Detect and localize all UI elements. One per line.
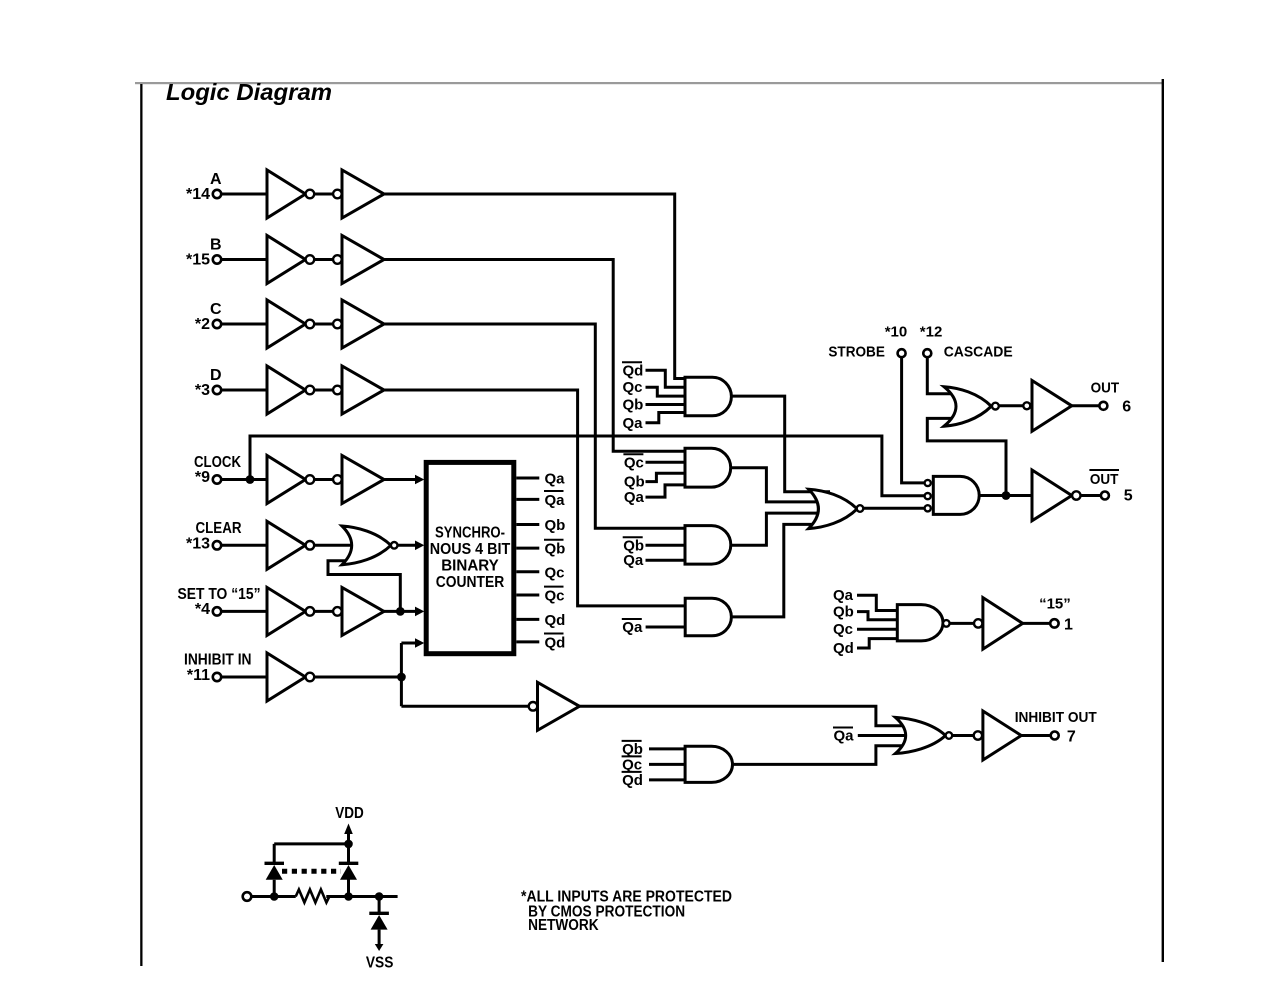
OR gate G10 inhibit out xyxy=(895,717,952,753)
buffer C second stage xyxy=(333,300,384,348)
counter output stub Qa-bar xyxy=(516,491,565,509)
svg-text:A: A xyxy=(210,171,222,188)
dotted link between D1 and D2 xyxy=(282,869,341,874)
wire G1 output to NOR G6 input 1 xyxy=(731,396,830,492)
note ALL INPUTS ARE PROTECTED xyxy=(521,888,732,934)
inverter A first stage xyxy=(267,170,314,218)
AND gate G4 xyxy=(685,598,731,636)
G2 stub Qa xyxy=(624,485,690,506)
svg-text:Qb: Qb xyxy=(622,741,643,758)
svg-text:B: B xyxy=(210,237,222,254)
svg-text:*15: *15 xyxy=(186,252,210,269)
svg-text:*2: *2 xyxy=(195,316,210,333)
input terminal *15 B xyxy=(186,237,222,269)
wire OR G10 output to inhibit-out buffer xyxy=(952,734,974,737)
wire net C: buffer output to AND G3 input 1 xyxy=(221,324,690,528)
inverter SET first stage xyxy=(267,587,314,635)
svg-text:SYNCHRO-: SYNCHRO- xyxy=(435,525,505,542)
terminal 5 OUT-bar xyxy=(1089,470,1132,505)
G1 stub Qd-bar xyxy=(622,362,690,387)
G9 stub Qb-bar xyxy=(622,741,690,758)
wire CASCADE terminal to NOR G8 input 1 xyxy=(927,357,958,393)
AND gate G11 for 15 decode xyxy=(897,605,949,641)
counter output stub Qb-bar xyxy=(516,540,565,558)
buffer INHIBIT OUT xyxy=(974,711,1022,760)
svg-text:OUT: OUT xyxy=(1090,471,1119,488)
wire inhibit buffer to OR G10 input 1 xyxy=(580,706,909,725)
arrowhead SET into counter xyxy=(415,607,424,617)
junction dot SET branch xyxy=(396,607,405,616)
input terminal *2 C xyxy=(195,301,222,333)
svg-text:Qa: Qa xyxy=(833,587,854,604)
svg-text:Qc: Qc xyxy=(833,621,853,638)
G3 stub Qb-bar xyxy=(623,537,690,554)
wire inhibit-out buffer to terminal 7 xyxy=(1021,734,1050,737)
wire AND G9 output to OR G10 input 3 xyxy=(733,746,909,765)
svg-text:NETWORK: NETWORK xyxy=(528,917,599,934)
svg-text:VDD: VDD xyxy=(335,805,364,822)
wire G3 output to NOR G6 input 3 xyxy=(731,513,830,545)
wire net SET: terminal to buffer, output to counter and OR G5 input 2 xyxy=(221,561,416,612)
wire OUT6 buffer to terminal 6 xyxy=(1072,404,1099,407)
wire AND G11 output bubble to 15 buffer xyxy=(950,622,975,625)
svg-text:1: 1 xyxy=(1064,616,1073,633)
inverter CLEAR xyxy=(267,521,314,569)
AND gate G1 xyxy=(685,377,731,416)
svg-text:Qd: Qd xyxy=(622,772,643,789)
buffer 15 output xyxy=(974,598,1023,650)
junction dot CLOCK branch xyxy=(246,475,255,484)
svg-text:*3: *3 xyxy=(195,382,210,399)
wire Qa-bar stub to OR G10 input 2 xyxy=(858,734,915,737)
junction dot NAND output xyxy=(1002,491,1011,500)
arrowhead CLOCK into counter xyxy=(415,475,424,485)
terminal 6 OUT xyxy=(1091,380,1132,416)
svg-text:Qb: Qb xyxy=(833,604,854,621)
buffer CLOCK second stage xyxy=(333,456,384,504)
buffer B second stage xyxy=(333,236,384,284)
svg-text:Qa: Qa xyxy=(623,415,644,432)
inverter CLOCK first stage xyxy=(267,456,314,504)
svg-text:Qa: Qa xyxy=(545,492,566,509)
diode D3 to VSS xyxy=(369,897,389,952)
svg-text:7: 7 xyxy=(1067,728,1076,745)
wire 15 buffer to terminal 1 xyxy=(1023,622,1050,625)
counter output stub Qd xyxy=(516,612,565,629)
junction dot right diode xyxy=(344,892,353,901)
wire interstage link row CLOCK xyxy=(314,478,333,481)
buffer SET second stage xyxy=(333,587,384,635)
input terminal *13 CLEAR xyxy=(186,520,242,553)
wire interstage link row B xyxy=(314,258,333,261)
svg-text:*9: *9 xyxy=(195,469,210,486)
svg-text:CLEAR: CLEAR xyxy=(196,520,242,537)
wire interstage link row A xyxy=(314,193,333,196)
NAND gate G7 3-input xyxy=(925,476,980,514)
AND gate G9 inhibit decode xyxy=(685,746,732,782)
G11 stub Qa xyxy=(833,587,902,610)
VDD arrow xyxy=(335,805,364,844)
svg-text:C: C xyxy=(210,301,222,318)
NOR gate G8 cascade/out xyxy=(944,387,999,427)
G9 stub Qc-bar xyxy=(622,756,690,773)
buffer A second stage xyxy=(333,170,384,218)
svg-text:Qb: Qb xyxy=(623,397,644,414)
svg-text:*13: *13 xyxy=(186,536,210,553)
svg-text:SET TO “15”: SET TO “15” xyxy=(178,586,261,603)
svg-text:STROBE: STROBE xyxy=(828,344,885,361)
terminal *10 STROBE xyxy=(828,324,907,361)
svg-text:NOUS 4 BIT: NOUS 4 BIT xyxy=(430,541,511,558)
inverter D first stage xyxy=(267,366,314,414)
counter output stub Qd-bar xyxy=(516,634,565,652)
wire G4 output to NOR G6 input 4 xyxy=(731,524,830,617)
svg-text:Qa: Qa xyxy=(545,471,566,488)
svg-text:D: D xyxy=(210,367,222,384)
AND gate G3 xyxy=(685,526,731,565)
G2 stub Qb xyxy=(624,473,690,490)
svg-text:Qb: Qb xyxy=(545,541,566,558)
inverter INHIBIT IN xyxy=(267,653,314,701)
top gray rule xyxy=(135,82,1163,84)
input terminal *3 D xyxy=(195,367,222,399)
counter block SYNCHRONOUS 4 BIT BINARY COUNTER xyxy=(426,462,514,653)
protection network input terminal xyxy=(243,892,252,901)
svg-text:BINARY: BINARY xyxy=(441,558,499,575)
svg-text:INHIBIT OUT: INHIBIT OUT xyxy=(1015,709,1097,726)
wire NAND G7 output to OUT5 buffer and NOR G8 input 2 xyxy=(927,418,1032,495)
wire net D: buffer output to AND G4 input 1 xyxy=(221,390,690,606)
wire NOR G8 output to OUT6 buffer xyxy=(999,404,1023,407)
right page border xyxy=(1162,79,1164,962)
inverter B first stage xyxy=(267,236,314,284)
wire interstage link row SET xyxy=(314,610,333,613)
junction dot INHIBIT branch xyxy=(397,673,406,682)
svg-text:Qd: Qd xyxy=(545,634,566,651)
svg-text:5: 5 xyxy=(1124,488,1133,505)
OR gate G5 clear/set xyxy=(342,526,398,565)
wire net B: buffer output to AND G2 input 1 xyxy=(221,260,690,452)
svg-text:Qd: Qd xyxy=(623,362,644,379)
wire net CLEAR: terminal to buffer, OR G5 output to counter xyxy=(221,544,416,547)
wire interstage link row D xyxy=(314,389,333,392)
G2 stub Qc-bar xyxy=(623,454,690,471)
terminal 1 15 xyxy=(1039,595,1073,633)
svg-text:Qa: Qa xyxy=(834,728,855,745)
counter output stub Qc-bar xyxy=(516,587,564,605)
wire OUT5 buffer bubble to terminal 5 xyxy=(1081,494,1101,497)
G1 stub Qb xyxy=(623,397,691,414)
counter output stub Qb xyxy=(516,517,565,534)
buffer OUT-bar 5 xyxy=(1032,470,1081,521)
input terminal *14 A xyxy=(186,171,222,203)
svg-text:Qa: Qa xyxy=(622,619,643,636)
wire NOR G6 output to NAND G7 input 3 xyxy=(863,507,925,510)
wire net INHIBIT IN: terminal to buffer, branches to counter and inhibit buffer xyxy=(221,643,529,706)
resistor R1 xyxy=(296,890,330,903)
G11 stub Qc xyxy=(833,621,902,638)
G9 stub Qd-bar xyxy=(622,772,690,789)
svg-text:Qd: Qd xyxy=(833,640,854,657)
junction dot bottom diode xyxy=(375,892,384,901)
NOR gate G6 4-input xyxy=(809,489,864,528)
G1 stub Qc xyxy=(623,379,691,396)
wire net A: buffer output to AND G1 input 1 xyxy=(221,194,690,379)
svg-text:*14: *14 xyxy=(186,186,210,203)
svg-text:Qa: Qa xyxy=(624,489,645,506)
svg-text:VSS: VSS xyxy=(366,955,394,972)
svg-text:Qc: Qc xyxy=(545,588,565,605)
svg-text:Qa: Qa xyxy=(623,552,644,569)
G1 stub Qa xyxy=(623,413,691,432)
buffer D second stage xyxy=(333,366,384,414)
svg-text:*12: *12 xyxy=(920,324,943,341)
stub Qa-bar to OR G10 xyxy=(833,728,854,745)
buffer OUT 6 xyxy=(1023,381,1072,432)
wire G2 output to NOR G6 input 2 xyxy=(731,468,830,502)
svg-text:Qd: Qd xyxy=(545,612,566,629)
arrowhead CLEAR into counter xyxy=(415,541,424,551)
svg-text:INHIBIT IN: INHIBIT IN xyxy=(184,652,252,669)
buffer inhibit feed xyxy=(529,682,580,730)
diode D1 to VDD xyxy=(265,863,285,896)
svg-text:*4: *4 xyxy=(195,601,210,618)
wire protection input node xyxy=(252,895,398,898)
G3 stub Qa xyxy=(623,552,690,569)
svg-text:Qc: Qc xyxy=(624,454,644,471)
left page border xyxy=(140,84,142,966)
svg-text:*10: *10 xyxy=(885,324,908,341)
input terminal *11 INHIBIT IN xyxy=(184,652,252,685)
junction dot left diode xyxy=(270,892,279,901)
diode D2 to VDD xyxy=(339,863,359,880)
svg-text:OUT: OUT xyxy=(1091,380,1120,397)
arrowhead INHIBIT into counter xyxy=(415,638,424,648)
wire net CLOCK: terminal to buffer, branch to NAND G7 input 2 xyxy=(221,436,925,496)
svg-text:6: 6 xyxy=(1122,398,1131,415)
svg-text:CASCADE: CASCADE xyxy=(944,344,1013,361)
junction dot VDD node xyxy=(344,840,353,849)
AND gate G2 xyxy=(685,448,731,487)
inverter C first stage xyxy=(267,300,314,348)
G11 stub Qb xyxy=(833,604,902,621)
svg-text:Qc: Qc xyxy=(622,756,642,773)
G11 stub Qd xyxy=(833,639,902,657)
counter output stub Qa xyxy=(516,471,565,488)
input terminal *4 SET TO 15 xyxy=(178,586,261,618)
svg-text:Qb: Qb xyxy=(545,517,566,534)
svg-text:Qc: Qc xyxy=(545,564,565,581)
wire top rail to VDD xyxy=(274,844,348,897)
G4 stub Qa-bar xyxy=(622,619,690,636)
svg-text:Qb: Qb xyxy=(624,474,645,491)
svg-text:“15”: “15” xyxy=(1039,595,1071,612)
svg-text:Logic Diagram: Logic Diagram xyxy=(166,79,332,105)
svg-text:*11: *11 xyxy=(187,667,210,684)
wire interstage link row C xyxy=(314,323,333,326)
input terminal *9 CLOCK xyxy=(194,454,241,486)
terminal 7 INHIBIT OUT xyxy=(1015,709,1097,745)
svg-text:COUNTER: COUNTER xyxy=(436,574,505,591)
wire STROBE terminal to NAND G7 input 1 xyxy=(902,357,925,483)
svg-text:Qc: Qc xyxy=(623,379,643,396)
counter output stub Qc xyxy=(516,564,564,581)
terminal *12 CASCADE xyxy=(920,324,1013,361)
